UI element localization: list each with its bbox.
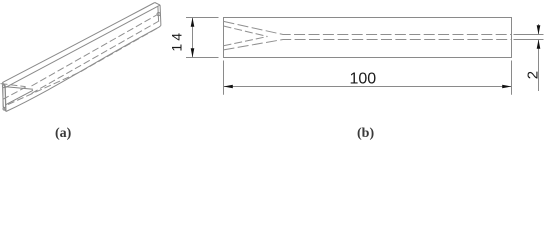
dimension 100: left extension line [223, 61, 225, 95]
dimension 2: dimension line lower segment [538, 40, 540, 92]
view (a): funnel far-side bottom hidden edge [3, 87, 26, 99]
view (a): 3D bar top near edge [5, 5, 160, 88]
view (a): 3D bar left-end near vertical edge [4, 88, 7, 112]
view (a): 3D bar right-end top short edge [155, 3, 160, 6]
dimension 100: left arrowhead [224, 85, 233, 89]
view (a): funnel far-side top hidden edge [1, 84, 26, 87]
svg-text:2: 2 [524, 71, 541, 79]
view (b): hidden funnel outer top line and channel top line [224, 21, 512, 34]
dimension 14: top extension line [186, 17, 219, 19]
view (b): hidden funnel inner bottom line [224, 37, 268, 46]
view (a): 3D bar right-end bottom short edge [159, 26, 161, 28]
dimension 2: dimension line upper segment [538, 24, 540, 35]
view (b): hidden funnel outer bottom line and channel bottom line [224, 40, 512, 50]
dimension 14: dimension line [192, 18, 194, 58]
view (a): 3D bar bottom near edge [6, 27, 159, 111]
view (a): left-end slot right edge [4, 88, 7, 108]
view (a): left-end slot left edge [2, 88, 5, 108]
view (a): 3D bar right-end far vertical edge [157, 7, 160, 22]
view (a): left-end funnel slot upper circle [2, 85, 5, 88]
dimension 100: dimension line [224, 86, 512, 88]
view (a): funnel lower visible edge [6, 90, 34, 105]
caption (b) [357, 126, 374, 142]
view (a): 3D bar right-end near vertical edge [159, 5, 162, 25]
view (b): hidden funnel inner top line [224, 26, 268, 37]
caption (a) [55, 126, 71, 142]
view (a): right-end outlet hole circle [157, 13, 160, 16]
dimension 14: bottom extension line [186, 57, 219, 59]
view (a): 3D bar left-end top short edge [3, 82, 6, 87]
view (a): hidden lower dashed line [8, 28, 159, 105]
view (a): left-end funnel slot lower circle [3, 107, 6, 110]
dimension 2: bottom arrowhead [537, 40, 541, 49]
svg-text:14: 14 [168, 30, 184, 52]
dimension 14: bottom arrowhead [191, 48, 195, 57]
dimension 14: top arrowhead [191, 18, 195, 27]
view (a): 3D bar top far edge [3, 3, 155, 83]
dimension 2: top extension line [514, 34, 544, 36]
view (a): hidden channel top dashed line [32, 15, 158, 87]
dimension 100: right extension line [511, 61, 513, 95]
dimension 2: bottom extension line [514, 39, 544, 41]
view (a): 3D bar left-end far vertical edge [2, 82, 5, 106]
view (a): funnel upper visible edge [5, 87, 34, 90]
view (a): 3D bar left-end bottom short edge [3, 107, 6, 112]
dimension 100: right arrowhead [502, 85, 511, 89]
view (a): hidden channel bottom dashed line [32, 21, 160, 93]
svg-text:100: 100 [349, 71, 376, 88]
view (b): body rectangle 100 x 14 [224, 18, 512, 58]
dimension 2: top arrowhead [537, 25, 541, 34]
